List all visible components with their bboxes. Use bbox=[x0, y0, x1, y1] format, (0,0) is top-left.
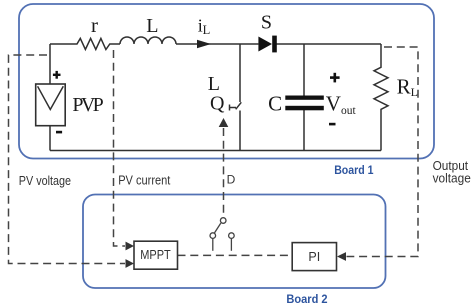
svg-text:MPPT: MPPT bbox=[140, 248, 171, 262]
svg-text:Q: Q bbox=[210, 93, 225, 115]
svg-text:L: L bbox=[208, 73, 220, 95]
svg-text:Board 1: Board 1 bbox=[334, 163, 374, 177]
svg-text:L: L bbox=[203, 23, 211, 37]
svg-text:L: L bbox=[146, 15, 158, 37]
svg-text:Board 2: Board 2 bbox=[286, 292, 327, 306]
svg-text:PV current: PV current bbox=[118, 174, 171, 188]
svg-text:voltage: voltage bbox=[433, 171, 471, 185]
svg-text:PVP: PVP bbox=[72, 94, 103, 116]
svg-text:PV voltage: PV voltage bbox=[19, 174, 71, 188]
svg-text:S: S bbox=[261, 12, 272, 34]
svg-text:r: r bbox=[91, 13, 98, 37]
svg-text:PI: PI bbox=[308, 250, 320, 264]
svg-text:D: D bbox=[227, 173, 236, 187]
svg-text:C: C bbox=[268, 91, 282, 115]
